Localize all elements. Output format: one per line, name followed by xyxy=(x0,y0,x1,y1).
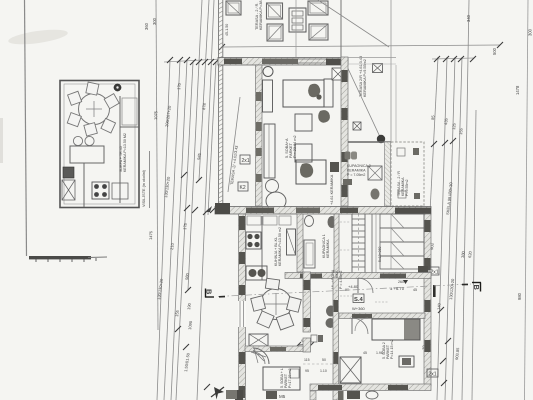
wall stub below bottom wall 2 xyxy=(338,391,344,400)
inset label bracket xyxy=(149,151,151,208)
dimension line xyxy=(176,62,193,400)
bath1 washbasin xyxy=(305,216,314,227)
inset dining table xyxy=(79,94,110,125)
svg-text:P = 4.50m2: P = 4.50m2 xyxy=(339,271,343,289)
figure on sofa xyxy=(300,163,313,178)
rail hatch ticks xyxy=(219,2,223,207)
window lower-left wall xyxy=(238,301,246,327)
wall dining-bedroom horizontal xyxy=(245,346,303,352)
terrace chair square 1 xyxy=(226,1,241,15)
kitchen top cabinets xyxy=(247,216,261,225)
svg-text:50: 50 xyxy=(322,358,326,362)
bath2 walls xyxy=(348,141,391,143)
svg-text:KERAMIKA: KERAMIKA xyxy=(347,169,366,173)
svg-text:2x1: 2x1 xyxy=(242,158,250,164)
corner column circle xyxy=(263,67,273,77)
boundary fence thin xyxy=(88,256,107,259)
wall living-hall vertical xyxy=(303,272,311,332)
hatch bar bottom left xyxy=(226,390,237,399)
inset chairs around table xyxy=(67,82,119,136)
kitchen sink xyxy=(246,266,267,280)
dimension line xyxy=(199,0,209,180)
bath2 toilet xyxy=(371,189,380,200)
terrace left rail double line xyxy=(218,0,220,206)
inset closet right xyxy=(122,98,137,125)
top dim end tick xyxy=(497,42,503,48)
bedroom2 bed xyxy=(372,319,420,340)
svg-text:2x1: 2x1 xyxy=(429,372,437,378)
inset kitchen X corner xyxy=(62,180,75,200)
big oval plant xyxy=(266,192,286,210)
kitchen counter xyxy=(261,216,263,280)
terrace chair square 5 xyxy=(309,24,328,40)
hall door dashes xyxy=(340,295,352,297)
window marker box 2 xyxy=(353,122,361,130)
dimension line xyxy=(171,60,187,400)
wardrobe top-left xyxy=(263,80,273,112)
headboard xyxy=(324,79,333,107)
svg-text:1075: 1075 xyxy=(153,110,158,120)
fridge tall box xyxy=(287,229,296,255)
stair dashed center xyxy=(358,214,360,273)
inset stove 4 burners xyxy=(92,182,109,199)
fan baseline left xyxy=(164,59,222,62)
center table xyxy=(295,114,312,131)
staircase treads xyxy=(352,219,365,267)
svg-text:2x1: 2x1 xyxy=(431,270,439,276)
terrace floor edge lines right xyxy=(348,57,396,59)
right terrace strip dashed xyxy=(391,142,424,206)
dark blob closet corner xyxy=(418,266,428,277)
wall stairs-closet xyxy=(371,214,373,273)
wall living-bath vertical lower xyxy=(333,278,339,400)
leader diagonal 2 xyxy=(344,60,381,139)
inset stove dot xyxy=(114,84,121,91)
inset counter rect xyxy=(70,146,104,163)
bedroom2 top wall xyxy=(339,313,425,319)
svg-text:260: 260 xyxy=(398,280,404,284)
inset right partition xyxy=(119,96,121,203)
svg-text:1478: 1478 xyxy=(515,85,520,95)
inset inner boundary xyxy=(64,84,135,204)
inset sink dark xyxy=(63,167,74,178)
closet room boxes xyxy=(380,214,424,228)
S4 label dark xyxy=(353,294,364,303)
fan baseline right xyxy=(432,58,474,59)
dimension line xyxy=(426,57,438,290)
small k2 boxes xyxy=(240,155,250,164)
dimension line xyxy=(437,57,447,400)
svg-text:45-1.50: 45-1.50 xyxy=(225,24,229,36)
left exterior wall upper xyxy=(256,65,263,206)
mid bath fixtures dark xyxy=(326,306,336,317)
dimension line short xyxy=(208,62,216,215)
bath2 washbasin double xyxy=(345,152,351,160)
90 dim with arrows xyxy=(298,344,312,345)
top-left arrow marks xyxy=(205,206,212,212)
svg-text:P = 7.05m2: P = 7.05m2 xyxy=(347,173,365,177)
svg-text:P=9.55m2: P=9.55m2 xyxy=(405,180,409,196)
svg-text:45: 45 xyxy=(413,288,417,292)
MS box on wall xyxy=(330,162,339,172)
door dashes bottom xyxy=(303,363,338,365)
bottom wall lower xyxy=(310,384,431,391)
scan smudge left edge xyxy=(0,118,3,163)
dimension line xyxy=(157,60,170,400)
inset bottom fixtures xyxy=(112,183,128,199)
column dot xyxy=(377,135,385,143)
dark corner bottom-left xyxy=(235,390,243,400)
bath1 toilet dark xyxy=(328,216,337,228)
scan smudge top-left xyxy=(7,27,68,47)
svg-text:S.4: S.4 xyxy=(354,297,363,303)
terrace right edge xyxy=(390,0,392,142)
svg-text:340: 340 xyxy=(466,14,471,22)
hall wall horizontal xyxy=(285,273,431,279)
section I tick right xyxy=(433,285,436,297)
living storage X box xyxy=(249,334,268,346)
bath2 shower X xyxy=(368,166,382,180)
wall kitchen-bath vertical xyxy=(297,214,303,272)
dimension line xyxy=(445,57,455,400)
dining chairs xyxy=(251,278,302,330)
dim arrow ticks top left xyxy=(167,57,173,63)
window in top wall xyxy=(298,58,326,60)
dimension line xyxy=(472,110,476,400)
svg-text:KERAMIKA P=13.50 M2: KERAMIKA P=13.50 M2 xyxy=(123,133,127,172)
dimension line leftmost xyxy=(156,0,158,330)
bath1 tub xyxy=(304,240,315,268)
svg-text:95: 95 xyxy=(305,369,309,373)
plant circle xyxy=(266,180,279,193)
lower right exterior wall xyxy=(424,214,431,386)
svg-text:M5: M5 xyxy=(279,394,286,399)
terrace chair square 2 xyxy=(267,3,283,19)
section dash left xyxy=(219,296,225,298)
section dash right xyxy=(462,283,468,285)
level triangle marker xyxy=(403,280,408,284)
terrace chair square 3 xyxy=(308,1,328,15)
2x1 box mid right xyxy=(429,267,439,275)
svg-text:KUPAONICA 2: KUPAONICA 2 xyxy=(347,164,371,168)
figure on bed xyxy=(308,84,320,97)
inset kitchen wall xyxy=(83,163,85,207)
small box 2x1 right xyxy=(427,369,438,377)
bed lower left xyxy=(263,367,300,390)
bedroom2 door arcs xyxy=(352,318,368,334)
wall bath1-stairs xyxy=(334,214,339,278)
svg-text:KERAMIKA: KERAMIKA xyxy=(326,239,330,258)
dimension line 340 full xyxy=(462,0,469,400)
bed upper xyxy=(283,80,324,107)
far right boundary line xyxy=(525,0,529,400)
svg-text:P = 23.84 m2: P = 23.84 m2 xyxy=(293,135,297,158)
tv stand xyxy=(399,356,414,367)
svg-text:± +6.70: ± +6.70 xyxy=(390,286,405,291)
hall door arc xyxy=(358,278,373,293)
leader diagonal 3 with text xyxy=(228,97,240,192)
inset sofa circles xyxy=(73,136,82,145)
washbasin dark below wall xyxy=(347,391,360,399)
dimension line xyxy=(164,60,180,400)
svg-text:360: 360 xyxy=(144,22,149,30)
boundary fence thick bar xyxy=(29,256,91,259)
dim arrow ticks right top xyxy=(434,56,440,62)
lower left exterior wall xyxy=(239,214,246,400)
window marker box with X xyxy=(373,64,383,73)
dim arrow ticks mid left xyxy=(181,172,187,178)
top horizontal dimension line xyxy=(222,45,500,47)
wardrobe left xyxy=(264,124,275,178)
property line A xyxy=(25,0,27,256)
dining table lower xyxy=(261,289,292,320)
stair side lines xyxy=(351,214,353,273)
north arrow lower left xyxy=(214,387,224,400)
svg-text:P=14.15 m2: P=14.15 m2 xyxy=(390,340,394,359)
fence posts xyxy=(35,259,37,262)
terrace chair square 4 xyxy=(267,24,283,41)
M5 dark block bottom xyxy=(266,391,277,399)
inset plan outer wall xyxy=(60,81,139,208)
top wall hatched xyxy=(218,58,348,66)
svg-text:KERAMIKA P=13.50 m2: KERAMIKA P=13.50 m2 xyxy=(278,227,282,266)
mid wall upper vertical xyxy=(341,57,348,206)
svg-text:KERAMIKA P=38.33m2: KERAMIKA P=38.33m2 xyxy=(259,0,263,30)
dimension line xyxy=(188,0,202,290)
terrace divider line xyxy=(340,0,342,57)
mid separating wall xyxy=(215,207,431,215)
svg-text:300: 300 xyxy=(528,28,533,36)
leader diagonal 1 xyxy=(318,0,389,47)
svg-text:K2: K2 xyxy=(240,185,246,191)
svg-text:500: 500 xyxy=(492,47,497,55)
sofa lower xyxy=(296,160,326,184)
wall stub below bottom wall 1 xyxy=(310,391,316,400)
dim arrow ticks right mid xyxy=(431,141,437,147)
terrace mid vertical dim line xyxy=(295,0,297,57)
center table 2 xyxy=(295,144,312,162)
svg-text:1.10: 1.10 xyxy=(320,369,327,373)
terrace table xyxy=(289,8,306,32)
svg-text:P=17.23 m2: P=17.23 m2 xyxy=(288,369,292,388)
corner plant fan xyxy=(253,348,269,364)
svg-text:1476: 1476 xyxy=(148,230,153,240)
stair landing dashes xyxy=(340,221,350,223)
svg-text:+4.61 KERAMIKA: +4.61 KERAMIKA xyxy=(330,174,334,205)
dimension line xyxy=(197,0,214,400)
section line B-B dashdot xyxy=(218,284,471,297)
svg-text:1.96: 1.96 xyxy=(376,351,383,355)
svg-text:W+360: W+360 xyxy=(352,306,366,311)
shower X big xyxy=(340,357,361,383)
svg-text:B: B xyxy=(472,285,481,291)
svg-text:115: 115 xyxy=(304,358,310,362)
svg-text:300: 300 xyxy=(152,17,157,25)
kitchen stove xyxy=(246,232,261,249)
bath2 dark corner xyxy=(343,179,352,185)
dimension line xyxy=(452,57,462,400)
svg-text:VISILJSTE (in okolini): VISILJSTE (in okolini) xyxy=(142,169,146,207)
door frame marks xyxy=(311,335,317,342)
svg-text:45: 45 xyxy=(363,351,367,355)
svg-text:KERAMIKA P=9.55m2: KERAMIKA P=9.55m2 xyxy=(363,59,367,97)
svg-text:980: 980 xyxy=(517,292,522,300)
figure 2 xyxy=(318,110,330,123)
svg-text:+4.80: +4.80 xyxy=(348,284,359,289)
X marker on wall top xyxy=(332,68,344,80)
